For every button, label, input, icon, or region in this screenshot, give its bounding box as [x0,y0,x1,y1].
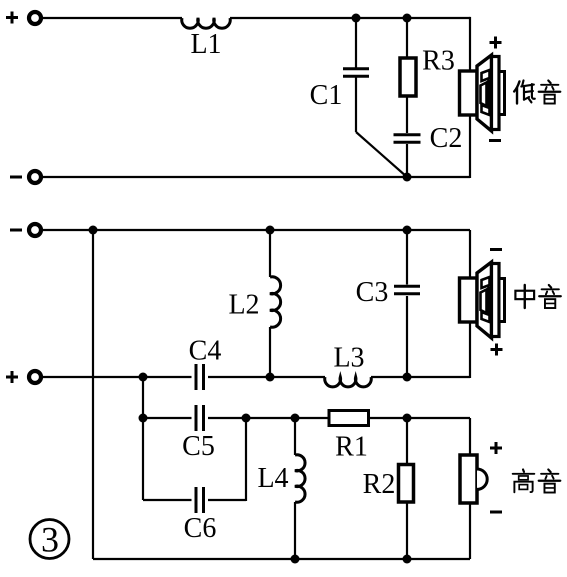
svg-text:R3: R3 [422,46,455,77]
label 高音 (tweeter) [513,469,561,492]
wire (L4 bottom lead) [294,502,296,559]
svg-text:3: 3 [41,520,59,560]
wire (R3 top lead) [406,17,408,58]
wire (L4 top lead) [294,418,296,455]
inductor L4 [295,455,305,502]
wire (tweeter top feed) [469,418,471,456]
node L (L4 top) [291,414,300,423]
label L1 [190,29,221,60]
wire (L2 top lead) [269,230,271,277]
terminal - (upper minus input) [29,171,41,183]
node I (plus rail / C3 bottom) [403,373,412,382]
label + (mid plus polarity) [6,371,18,383]
label C1 [310,80,343,111]
wire (bottom rail) [93,558,470,560]
wire (plus rail mid) [208,376,325,378]
svg-text:L2: L2 [228,290,259,321]
wire (tweeter bottom feed) [469,503,471,559]
node O (bottom rail / R2) [403,555,412,564]
label R2 [363,469,396,500]
capacitor C6 [195,487,206,513]
node F (mid rail / C3 top) [403,226,412,235]
capacitor C4 [195,364,206,390]
svg-text:C1: C1 [310,80,343,111]
wire (section1 bottom rail) [43,176,470,178]
node A (top rail / C1 tap) [352,14,361,23]
wire (woofer top feed) [469,17,471,71]
wire (plus rail right) [371,376,470,378]
node J (tweeter rail left) [139,414,148,423]
figure number 3 (circled) [30,520,69,560]
node H (plus rail / L2 bottom) [266,373,275,382]
label C4 [189,336,222,367]
label C5 [182,431,215,462]
wire (top rail left: terminal to L1) [43,17,182,19]
svg-text:L4: L4 [257,463,288,494]
label + (mid speaker positive) [491,344,503,356]
svg-text:C3: C3 [356,277,389,308]
wire (C6 right branch) [245,418,247,501]
wire (C1 bottom lead) [355,78,357,133]
wire (diagonal C1 to node C) [356,132,407,177]
label + (woofer positive) [490,37,502,49]
wire (R2 bottom lead) [406,502,408,559]
inductor L2 [270,277,281,327]
terminal - (mid minus input) [29,224,41,236]
capacitor C5 [195,405,206,431]
svg-text:C2: C2 [430,123,463,154]
node N (bottom rail / L4) [291,555,300,564]
terminal + (top input, positive) [29,12,41,24]
capacitor C3 [394,285,420,296]
label C3 [356,277,389,308]
svg-text:C5: C5 [182,431,215,462]
label L2 [228,290,259,321]
node G (plus rail / C4-C5 branch) [139,373,148,382]
wire (mid speaker top feed) [469,230,471,278]
wire (mid speaker bottom feed) [469,322,471,378]
label R3 [422,46,455,77]
svg-text:R1: R1 [335,432,368,463]
label R1 [335,432,368,463]
label L4 [257,463,288,494]
wire (tweeter rail seg1) [208,417,329,419]
node B (top rail / R3 tap) [403,14,412,23]
speaker LS3 (tweeter) [460,455,487,503]
svg-text:C6: C6 [184,513,217,544]
node D (mid rail / left column) [89,226,98,235]
svg-text:R2: R2 [363,469,396,500]
label - (tweeter negative) [490,511,502,514]
node M (R2 top) [403,414,412,423]
capacitor C1 [343,67,369,78]
node K (C6 branch right) [242,414,251,423]
label - (mid speaker negative) [490,248,502,251]
terminal + (mid plus input) [29,371,41,383]
resistor R2 [399,465,414,503]
wire (C6 bottom right wire) [208,499,246,501]
capacitor C2 [394,133,421,144]
svg-text:L3: L3 [333,343,364,374]
label + (top input polarity) [6,12,18,24]
wire (top rail right: L1 to woofer corner) [230,17,470,19]
label L3 [333,343,364,374]
resistor R3 [400,58,416,96]
wire (C1 top lead) [355,17,357,68]
svg-text:L1: L1 [190,29,221,60]
inductor L1 [182,18,231,28]
wire (C5 left lead) [143,417,192,419]
wire (left column down) [92,230,94,559]
label - (upper minus polarity) [10,176,22,179]
wire (R3 to C2 lead) [406,96,408,133]
svg-text:C4: C4 [189,336,222,367]
speaker LS2 (midrange) [460,262,505,338]
wire (C6 left branch) [142,418,144,500]
label - (mid minus polarity) [10,229,22,232]
inductor L3 [325,377,372,387]
wire (C4 branch down) [142,377,144,418]
label - (woofer negative) [489,139,501,142]
label C2 [430,123,463,154]
wire (mid top rail) [43,229,470,231]
wire (woofer bottom feed) [469,115,471,178]
speaker LS1 (woofer) [460,55,505,131]
label C6 [184,513,217,544]
wire (plus rail left) [43,376,192,378]
node E (mid rail / L2 top) [266,226,275,235]
resistor R1 [329,411,369,426]
label + (tweeter positive) [490,442,502,454]
wire (C3 bottom lead) [406,296,408,377]
wire (R2 top lead) [406,418,408,465]
wire (tweeter rail seg2) [368,417,470,419]
label 中音 (midrange) [515,285,560,308]
node C (bottom rail junction) [403,173,412,182]
wire (C6 bottom left wire) [143,499,192,501]
wire (C3 top lead) [406,230,408,285]
label 低音 (woofer) [514,80,560,103]
wire (C2 bottom lead) [406,144,408,177]
wire (L2 bottom lead) [269,327,271,377]
